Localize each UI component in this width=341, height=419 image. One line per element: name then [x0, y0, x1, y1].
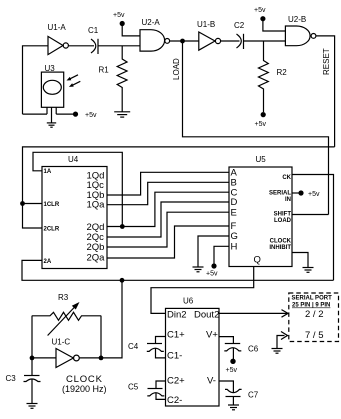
svg-text:(19200 Hz): (19200 Hz): [62, 384, 107, 394]
CLOCK label: [62, 374, 107, 394]
svg-text:U5: U5: [256, 155, 267, 164]
svg-text:SERIAL PORT: SERIAL PORT: [292, 296, 333, 302]
svg-text:CLOCK: CLOCK: [270, 239, 292, 245]
net LOAD label: [172, 58, 181, 80]
inverter U1-C: [52, 338, 80, 368]
svg-text:U1-B: U1-B: [197, 20, 215, 29]
wire: U1-A output to C1: [68, 45, 94, 47]
svg-text:1Qa: 1Qa: [87, 200, 106, 211]
ground under U3: [47, 123, 56, 127]
inverter U1-B: [197, 20, 221, 50]
svg-text:Din2: Din2: [167, 309, 187, 320]
wire: Dout2 to serial port with arrow: [219, 310, 288, 318]
svg-text:Q: Q: [254, 255, 261, 266]
capacitor C5: [128, 381, 166, 399]
wire: 1Qb to U5 A: [107, 172, 229, 195]
svg-text:H: H: [231, 241, 238, 252]
wire: 2Qb to U5 E: [107, 212, 229, 247]
svg-text:U2-A: U2-A: [142, 18, 161, 27]
svg-text:R3: R3: [58, 293, 69, 302]
svg-text:U6: U6: [183, 297, 194, 306]
capacitor C1: [88, 26, 99, 54]
svg-text:C2: C2: [234, 21, 245, 30]
svg-text:C1+: C1+: [167, 330, 185, 341]
wire: 1Qa to U5 B: [107, 182, 229, 204]
wire RESET horizontal to left rail and CLR pins: [23, 147, 335, 228]
resistor R1: [99, 46, 128, 112]
U3 pin leads: [23, 107, 74, 123]
U4 pin labels: [44, 169, 106, 265]
svg-text:+5v: +5v: [206, 270, 218, 277]
svg-text:Dout2: Dout2: [194, 309, 219, 320]
svg-text:+5v: +5v: [113, 12, 125, 19]
svg-text:C1-: C1-: [167, 350, 182, 361]
svg-text:SHIFT: SHIFT: [274, 212, 292, 218]
svg-text:U4: U4: [68, 155, 79, 164]
shift register U5: [229, 155, 292, 267]
svg-text:2Qb: 2Qb: [87, 242, 105, 253]
ground under R1: [114, 112, 130, 117]
node 2Qd/1A junction: [120, 224, 125, 229]
ground under C3: [27, 404, 38, 409]
svg-text:C2-: C2-: [167, 395, 182, 406]
wire: main input line to U1-A: [23, 46, 49, 114]
nand U2-A: [140, 18, 170, 51]
svg-text:1CLR: 1CLR: [44, 202, 60, 208]
wire: oscillator output up to clock line: [101, 280, 122, 358]
svg-text:R1: R1: [99, 66, 110, 75]
wire: 2A from clock line: [22, 260, 334, 280]
svg-text:+5v: +5v: [226, 367, 238, 374]
svg-text:INHIBIT: INHIBIT: [269, 245, 291, 251]
svg-text:U1-A: U1-A: [48, 23, 67, 32]
wire: U1-B output to C2: [221, 40, 240, 42]
svg-text:+5v: +5v: [308, 191, 320, 198]
svg-text:7 / 5: 7 / 5: [305, 330, 324, 341]
+5v at U3: [73, 112, 97, 120]
svg-text:CK: CK: [282, 175, 291, 181]
wire: U5 SERIAL IN to +5v: [292, 192, 299, 194]
variable resistor R3: [32, 293, 101, 336]
+5v supply for U2-B: [254, 7, 285, 31]
svg-text:+5v: +5v: [254, 7, 266, 14]
svg-text:2Qa: 2Qa: [87, 253, 106, 264]
resistor R2: [259, 41, 288, 112]
wire: oscillator input: [32, 357, 56, 359]
light arrows into U3: [67, 75, 81, 87]
wire: Q output of U5 to U6 Din2: [151, 267, 254, 314]
svg-text:LOAD: LOAD: [274, 218, 292, 224]
node RESET/1CLR junction: [20, 201, 42, 206]
wire: R3 right to oscillator output: [100, 316, 102, 358]
svg-text:RESET: RESET: [322, 48, 331, 75]
wire: C1 to U2-A input with R1 junction: [98, 45, 140, 47]
svg-text:2 / 2: 2 / 2: [305, 309, 324, 320]
wire: C2 to U2-B input with R2 junction: [244, 40, 286, 42]
svg-text:+5v: +5v: [85, 112, 97, 119]
wire: U5 CK to clock line: [292, 175, 334, 281]
svg-text:IN: IN: [285, 197, 291, 203]
svg-text:E: E: [231, 207, 237, 218]
U6 pin labels: [167, 309, 219, 406]
svg-text:U2-B: U2-B: [288, 15, 306, 24]
capacitor C3: [6, 358, 41, 404]
svg-text:SERIAL: SERIAL: [269, 191, 291, 197]
wire: 2Qa to U5 F: [107, 226, 229, 258]
wire: U2-A output to U1-B with LOAD junction: [170, 40, 199, 42]
net RESET label: [322, 48, 331, 75]
serial port ground arrow: [277, 332, 288, 349]
node clock junction (oscillator tap): [120, 278, 125, 283]
svg-text:C5: C5: [128, 383, 139, 392]
+5v at H: [206, 263, 218, 277]
serial port connector box: [289, 293, 339, 342]
wire: 2Qd to U5 C: [107, 192, 229, 226]
svg-text:+5v: +5v: [255, 121, 267, 128]
inverter U1-A: [48, 23, 69, 55]
+5v at R2 bottom: [255, 112, 267, 128]
wire: 2Qc to U5 D: [107, 202, 229, 237]
wire: U5 SHIFT/LOAD pin: [292, 214, 329, 216]
svg-text:V+: V+: [206, 330, 218, 341]
wire: 1A feedback from 2Qd: [33, 152, 122, 226]
node oscillator output junction: [99, 356, 104, 361]
svg-text:2A: 2A: [44, 259, 52, 265]
node LOAD junction: [180, 39, 185, 44]
ground under G: [193, 267, 204, 272]
svg-text:C4: C4: [128, 342, 139, 351]
ground under C7: [228, 405, 239, 410]
capacitor C2: [234, 21, 245, 49]
ground under CLOCK INHIBIT: [303, 268, 314, 273]
svg-text:C1: C1: [88, 26, 99, 35]
svg-text:C7: C7: [248, 391, 259, 400]
+5v at C6: [226, 359, 238, 374]
counter U4: [42, 155, 107, 269]
wire: U5 CLOCK INHIBIT to ground: [292, 253, 308, 268]
capacitor C7: [219, 381, 259, 405]
svg-text:R2: R2: [277, 68, 288, 77]
node oscillator input junction: [30, 356, 35, 361]
U5 pin labels: [231, 168, 292, 266]
wire: R3 left to oscillator input: [31, 316, 33, 358]
wire: U1-C output: [80, 357, 102, 359]
net LOAD vertical from junction: [183, 41, 329, 215]
wire: U5 G to ground: [198, 236, 229, 267]
svg-text:25 PIN | 9 PIN: 25 PIN | 9 PIN: [292, 303, 330, 309]
svg-text:C6: C6: [248, 345, 259, 354]
wire: U5 H to +5v: [214, 246, 229, 263]
+5v at SERIAL IN: [298, 190, 320, 198]
svg-text:LOAD: LOAD: [172, 58, 181, 80]
svg-text:U1-C: U1-C: [52, 338, 71, 347]
svg-text:2CLR: 2CLR: [44, 226, 60, 232]
nand U2-B: [285, 15, 316, 46]
svg-text:C3: C3: [6, 374, 17, 383]
capacitor C6: [219, 337, 259, 359]
svg-text:C2+: C2+: [167, 376, 185, 387]
capacitor C4: [128, 337, 166, 358]
svg-text:V-: V-: [207, 376, 216, 387]
svg-text:1A: 1A: [44, 169, 52, 175]
svg-text:U3: U3: [45, 64, 56, 73]
photodetector U3: [41, 64, 63, 107]
+5v supply for U2-A: [113, 12, 140, 36]
wire: U2-B output RESET down right side: [316, 36, 335, 147]
driver U6: [166, 297, 220, 407]
ground at serial port: [272, 349, 283, 354]
